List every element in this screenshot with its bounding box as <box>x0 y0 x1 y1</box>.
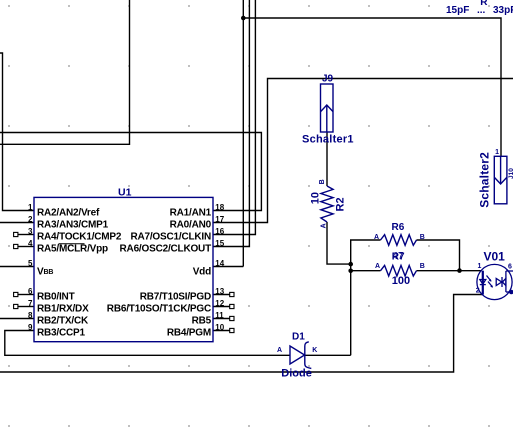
svg-text:33pF: 33pF <box>493 5 513 16</box>
svg-text:R: R <box>480 0 488 8</box>
wire: vertical x=249.4 from top to pin 15 <box>213 0 249 247</box>
wire: left net y=132.5 to pin 18 via x=261.4 <box>0 133 261 211</box>
svg-text:RB2/TX/CK: RB2/TX/CK <box>37 315 89 326</box>
svg-text:R7: R7 <box>392 251 405 262</box>
svg-text:1: 1 <box>478 263 482 270</box>
svg-text:6: 6 <box>28 287 33 296</box>
pin 6 stub and unconnected square <box>14 292 34 296</box>
V01 pin4 junction dot <box>509 290 513 295</box>
svg-text:RB7/T10SI/PGD: RB7/T10SI/PGD <box>140 291 211 302</box>
svg-text:6: 6 <box>508 263 512 270</box>
svg-text:1: 1 <box>28 203 33 212</box>
svg-text:J9: J9 <box>322 73 334 84</box>
svg-text:V01: V01 <box>484 250 506 264</box>
svg-text:RA2/AN2/Vref: RA2/AN2/Vref <box>37 207 100 218</box>
wire: top horizontal y=18 to Schalter2 <box>243 18 501 156</box>
svg-text:RB4/PGM: RB4/PGM <box>167 327 211 338</box>
svg-text:A: A <box>374 234 379 241</box>
svg-text:1: 1 <box>495 149 499 156</box>
svg-text:RB1/RX/DX: RB1/RX/DX <box>37 303 89 314</box>
wire: pin 5 Vss to left edge <box>0 266 34 268</box>
resistor R7 (100 ohm, horizontal) <box>381 265 417 276</box>
svg-text:Schalter1: Schalter1 <box>302 134 354 146</box>
svg-text:RA6/OSC2/CLKOUT: RA6/OSC2/CLKOUT <box>120 243 212 254</box>
svg-text:11: 11 <box>215 311 224 320</box>
svg-text:15pF: 15pF <box>446 5 469 16</box>
svg-text:8: 8 <box>28 311 33 320</box>
svg-text:RA1/AN1: RA1/AN1 <box>170 207 212 218</box>
svg-text:17: 17 <box>215 215 224 224</box>
diode D1 (Schottky) <box>290 342 311 369</box>
wire: Vdd vertical x=243.3 from top to pin 14 <box>213 0 243 267</box>
svg-text:15: 15 <box>215 239 224 248</box>
switch J9 (Schalter1) <box>321 84 334 132</box>
resistor R6 (47 ohm, horizontal) <box>381 235 417 246</box>
svg-text:RB0/INT: RB0/INT <box>37 291 75 302</box>
svg-text:RA0/AN0: RA0/AN0 <box>170 219 212 230</box>
junction at (243.3,18) <box>241 16 246 21</box>
svg-text:A: A <box>375 263 380 270</box>
svg-text:B: B <box>319 179 326 184</box>
svg-text:U1: U1 <box>118 187 132 199</box>
svg-text:16: 16 <box>215 227 224 236</box>
svg-text:D1: D1 <box>292 331 305 342</box>
U1 left pin labels <box>37 207 122 338</box>
svg-text:9: 9 <box>28 323 33 332</box>
svg-text:2: 2 <box>28 215 33 224</box>
wire: R2 bottom branch into junction column <box>327 222 351 264</box>
IC U1 body <box>34 187 213 342</box>
wire: diode cathode to junction column x=350.7, up to R6 <box>305 240 381 355</box>
wire: R6 right lead down to R7 row <box>417 240 460 271</box>
svg-text:RA5/MCLR/Vpp: RA5/MCLR/Vpp <box>37 243 108 254</box>
svg-text:J10: J10 <box>508 168 513 179</box>
svg-text:13: 13 <box>215 287 224 296</box>
svg-text:VBB: VBB <box>37 267 53 278</box>
svg-text:2: 2 <box>476 288 480 295</box>
svg-text:K: K <box>312 347 317 354</box>
svg-text:A: A <box>320 223 327 228</box>
svg-text:100: 100 <box>392 275 410 287</box>
pin 3 stub and unconnected square <box>14 232 34 236</box>
wire: y=78.5 horizontal to right edge, down to pin 17 via x=267.5 <box>213 79 513 223</box>
svg-text:R2: R2 <box>335 197 347 211</box>
wire: pin 9 RB3/CCP1 loop down to diode anode <box>5 331 290 356</box>
junction dot A (350.7,264.1) <box>348 262 353 267</box>
switch J10 (Schalter2) <box>494 156 507 204</box>
junction dot B (350.7,270.8) <box>348 269 353 274</box>
junction dot C (459.5,270.6) <box>457 268 462 273</box>
wire: V01 pin2 down and long bottom net to left edge <box>0 295 482 373</box>
U1 left pin numbers <box>28 203 33 332</box>
svg-text:Schalter2: Schalter2 <box>477 152 491 208</box>
wire: vertical bus line from top to net at left, x=129.5 down to y=144.3 then left to edge <box>0 0 130 144</box>
wire: J9 bottom to R2 top <box>326 132 328 186</box>
svg-text:10: 10 <box>215 323 224 332</box>
svg-text:18: 18 <box>215 203 224 212</box>
svg-text:RB5: RB5 <box>192 315 212 326</box>
U1 right pin numbers <box>215 203 224 332</box>
wire: pin 2 to left edge <box>0 222 34 224</box>
svg-text:B: B <box>420 234 425 241</box>
svg-text:7: 7 <box>28 299 33 308</box>
svg-text:Diode: Diode <box>281 367 312 379</box>
svg-text:RA7/OSC1/CLKIN: RA7/OSC1/CLKIN <box>130 231 211 242</box>
wire: left net y=53 down x=2.5 to pin 1 <box>0 53 34 211</box>
pin 7 stub and unconnected square <box>14 304 34 308</box>
svg-text:5: 5 <box>28 259 33 268</box>
wire: R7 left lead <box>351 270 381 272</box>
svg-text:10: 10 <box>309 192 321 204</box>
svg-text:4: 4 <box>28 239 33 248</box>
svg-text:RA3/AN3/CMP1: RA3/AN3/CMP1 <box>37 219 109 230</box>
svg-text:RB3/CCP1: RB3/CCP1 <box>37 327 85 338</box>
pin 12 stub and unconnected square <box>213 304 234 308</box>
svg-text:12: 12 <box>215 299 224 308</box>
pin 10 stub and unconnected square <box>213 328 234 332</box>
resistor R2 (10 ohm, vertical) <box>321 186 333 222</box>
wire: pin 8 to left edge <box>0 318 34 320</box>
svg-text:RA4/TOCK1/CMP2: RA4/TOCK1/CMP2 <box>37 231 122 242</box>
svg-text:RB6/T10SO/T1CK/PGC: RB6/T10SO/T1CK/PGC <box>107 303 211 314</box>
svg-text:R6: R6 <box>392 222 405 233</box>
MCLR overline <box>59 243 85 245</box>
pin 11 stub and unconnected square <box>213 316 234 320</box>
wire: vertical x=255.4 from top to pin 16 <box>213 0 255 235</box>
U1 right pin labels <box>107 207 212 338</box>
svg-text:B: B <box>420 263 425 270</box>
optocoupler V01 <box>477 264 513 299</box>
V01 arrowheads of light arrows <box>489 279 492 282</box>
svg-text:3: 3 <box>28 227 33 236</box>
wire: R7 right lead to V01 pin1 <box>417 270 482 272</box>
capacitor note 15pF ... 33pF <box>446 5 513 16</box>
svg-text:Vdd: Vdd <box>193 267 211 278</box>
svg-text:14: 14 <box>215 259 224 268</box>
pin 13 stub and unconnected square <box>213 292 234 296</box>
pin 4 stub and unconnected square <box>14 244 34 248</box>
svg-text:A: A <box>277 347 282 354</box>
